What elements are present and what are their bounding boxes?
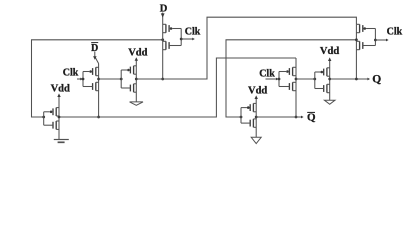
wire U1 supply-to-ground column with Vdd arrowhead: [57, 93, 60, 139]
svg-text:Q: Q: [307, 112, 316, 124]
wire W2 (U2 output up and across top to M7/M8 drain): [136, 17, 356, 79]
svg-text:Clk: Clk: [259, 68, 275, 79]
node junction M9/M10 mid node: [295, 78, 298, 81]
ground (bar style, U1): [54, 140, 69, 143]
wire W3 (U1 output across to slave input column): [59, 58, 296, 117]
node Vdd label (inverter U2): [128, 47, 147, 58]
transistor M6 (NMOS of inverter U2): [121, 84, 136, 92]
wire Dbar input lead with arrowhead: [93, 52, 99, 64]
wire Clk arrow (right-middle): [266, 78, 279, 81]
node Vdd label (inverter U3): [248, 85, 267, 96]
wire Q output with arrowhead: [330, 78, 370, 81]
wire W4 (slave pair mid node down to inverter U3 input): [226, 40, 356, 117]
wire D input lead with arrowhead: [161, 13, 165, 80]
node Clk label (right-middle): [259, 68, 275, 79]
transistor M4 (NMOS pass, clocked, Dbar input): [83, 82, 99, 90]
node Dbar input label: [91, 43, 98, 54]
node junction U3 output: [255, 116, 258, 119]
svg-text:Clk: Clk: [387, 27, 403, 38]
wire Clk arrow (left-middle): [77, 78, 83, 81]
ground (arrow style, U4): [324, 100, 335, 104]
svg-text:Vdd: Vdd: [128, 47, 147, 58]
wire U2 supply-to-ground column with Vdd arrowhead: [135, 57, 138, 102]
node D input label: [160, 3, 168, 14]
node Vdd label (inverter U4): [320, 46, 339, 57]
node junction M3/M4 bottom on wire W3: [97, 116, 100, 119]
ground (arrow style, U2): [130, 102, 143, 105]
wire M3/M4 mid node to U2 input: [99, 78, 122, 80]
svg-text:Vdd: Vdd: [248, 85, 267, 96]
transistor M9 (PMOS pass, clocked, right-middle): [279, 67, 296, 75]
wire M7/M8 gate tie: [374, 29, 376, 46]
wire M1/M2 gate tie: [180, 29, 182, 46]
node Q output label: [372, 73, 381, 85]
wire U2 gate tie: [120, 70, 122, 88]
wire U3 gate tie: [240, 108, 242, 124]
wire U4 supply-to-ground column with Vdd arrowhead: [328, 57, 331, 100]
transistor M15 (PMOS of inverter U3): [241, 103, 256, 111]
wire Qbar output with arrowhead: [256, 116, 303, 119]
transistor M7 (PMOS pass, clocked, slave): [356, 24, 375, 32]
wire M7/M8 source-drain column: [355, 24, 357, 79]
node junction U1 output: [58, 116, 61, 119]
node junction M7/M8 mid node: [355, 38, 358, 41]
transistor M10 (NMOS pass, clocked, right-middle): [279, 82, 296, 90]
node Clk label (left-middle): [63, 68, 79, 79]
wire Clk arrow (top-right): [375, 39, 388, 42]
wire U1 gate tie: [43, 112, 45, 125]
node Vdd label (inverter U1): [51, 83, 70, 94]
node junction U2 output: [135, 78, 138, 81]
transistor M16 (NMOS of inverter U3): [241, 119, 256, 127]
node Clk tap junction M3/M4: [82, 78, 85, 81]
node junction M2 source on wire W2: [161, 78, 164, 81]
transistor M3 (PMOS pass, clocked, Dbar input): [83, 67, 99, 75]
svg-text:Vdd: Vdd: [51, 83, 70, 94]
node junction M3/M4 mid node: [97, 78, 100, 81]
transistor M13 (PMOS of inverter U4): [315, 68, 330, 76]
node junction U3 input: [240, 116, 243, 119]
node junction U4 output: [328, 78, 331, 81]
transistor M1 (PMOS pass, clocked, D input): [163, 24, 182, 32]
node Clk tap junction M1/M2: [180, 38, 183, 41]
wire M9/M10 gate tie: [278, 72, 280, 87]
svg-text:Clk: Clk: [63, 68, 79, 79]
node Clk tap junction M7/M8: [374, 39, 377, 42]
node Clk tap junction M9/M10: [278, 78, 281, 81]
svg-text:Vdd: Vdd: [320, 46, 339, 57]
node junction M9/M10 bottom on Qbar wire: [295, 116, 298, 119]
transistor M8 (NMOS pass, clocked, slave): [356, 41, 375, 49]
wire M3/M4 gate tie: [82, 72, 84, 87]
transistor M5 (PMOS of inverter U2): [121, 66, 136, 74]
node X1 junction (mid node of D pass pair on wire W1): [161, 38, 164, 41]
wire U3 supply-to-ground column with Vdd arrowhead: [255, 95, 258, 137]
transistor M2 (NMOS pass, clocked, D input): [163, 41, 182, 49]
transistor M11 (PMOS of inverter U1): [44, 108, 59, 116]
svg-text:Clk: Clk: [185, 26, 201, 37]
node Clk label (top-middle): [185, 26, 201, 37]
wire feedback loop (pair M1/M2 mid node to inverter U1 input): [32, 40, 163, 117]
wire U4 gate tie: [314, 72, 316, 89]
svg-text:Q: Q: [372, 73, 381, 85]
node junction U2 input: [120, 78, 123, 81]
node junction U4 input: [313, 78, 316, 81]
transistor M14 (NMOS of inverter U4): [315, 84, 330, 92]
wire M9/M10 mid node to U4 input: [296, 78, 315, 80]
node junction M8 source on Q wire: [355, 78, 358, 81]
node Clk label (top-right): [387, 27, 403, 38]
wire pass pair M3/M4 source-drain column: [98, 64, 100, 118]
svg-text:D: D: [160, 3, 168, 14]
ground (arrow style large, U3): [251, 137, 261, 143]
node Qbar output label: [307, 112, 316, 124]
transistor M12 (NMOS of inverter U1): [44, 121, 59, 129]
node junction U1 input: [42, 116, 45, 119]
wire M9/M10 source-drain column: [295, 58, 297, 117]
wire Clk arrow (top-middle): [181, 38, 195, 41]
